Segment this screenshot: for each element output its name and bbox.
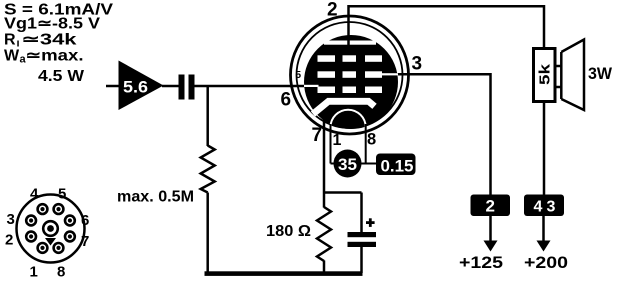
svg-text:3W: 3W: [588, 64, 613, 83]
svg-text:3: 3: [547, 199, 556, 216]
wire cathode pin 7 lead: [323, 118, 326, 193]
socket pin 6: [65, 216, 75, 226]
svg-text:max. 0.5M: max. 0.5M: [117, 189, 194, 206]
wire cathode junction horizontal: [324, 191, 362, 194]
svg-text:6: 6: [281, 90, 292, 111]
resistor max. 0.5M zigzag: [201, 146, 215, 193]
tube socket outer circle: [17, 195, 85, 263]
svg-text:+125: +125: [459, 253, 503, 272]
output transformer box 5k: [534, 49, 556, 102]
wire pin 3 screen lead to box 2: [397, 74, 491, 194]
anode top bar (white): [324, 41, 376, 45]
heater current box 0.15: [376, 154, 416, 176]
svg-text:R: R: [4, 32, 16, 49]
bottom electrode band (white): [313, 101, 375, 114]
electrolytic capacitor plates: [348, 232, 377, 237]
svg-text:3: 3: [7, 211, 15, 228]
svg-text:35: 35: [338, 156, 357, 174]
arrow to +125: [489, 216, 492, 242]
svg-text:7: 7: [312, 125, 323, 146]
wire 0.5M to bottom rail: [206, 193, 209, 274]
white grid entry line (pin 6): [304, 85, 319, 87]
svg-text:8: 8: [367, 131, 376, 149]
svg-text:1: 1: [30, 264, 38, 281]
wire 180 ohm leads: [323, 193, 326, 208]
wire input left stub: [106, 85, 120, 88]
socket key triangle: [45, 238, 56, 246]
socket pin 1: [38, 243, 48, 253]
loudspeaker symbol: [561, 40, 584, 111]
svg-text:8: 8: [57, 264, 65, 281]
bottom rail: [205, 271, 363, 276]
svg-text:3: 3: [412, 54, 423, 75]
wire grid-leak branch vertical: [206, 86, 209, 146]
svg-text:7: 7: [81, 233, 89, 250]
grid dashes row 3: [318, 87, 336, 94]
arrow to +200: [542, 216, 545, 242]
white screen exit line (pin 3): [382, 73, 398, 75]
socket pin 2: [26, 232, 36, 242]
svg-text:5: 5: [58, 186, 66, 203]
voltage box 43: [524, 195, 564, 217]
pin 2 lead over anode bar: [347, 40, 350, 46]
wire triangle to capacitor: [162, 85, 179, 88]
wire 5k to 43 box: [543, 102, 546, 195]
wire capacitor to tube grid: [195, 85, 306, 88]
svg-text:4: 4: [30, 186, 39, 203]
svg-text:1: 1: [333, 132, 342, 149]
socket pin 8: [54, 243, 64, 253]
svg-text:2: 2: [486, 197, 495, 216]
speaker connection stubs: [555, 65, 561, 68]
svg-text:≃34k: ≃34k: [22, 32, 77, 49]
plus sign of electrolytic: [366, 221, 375, 224]
heater leg pin 1: [330, 124, 332, 164]
svg-text:4: 4: [534, 199, 543, 216]
socket pin 4: [38, 204, 48, 214]
tube outer envelope circle: [291, 16, 409, 134]
capacitor C1 plate 2: [189, 75, 195, 100]
svg-text:2: 2: [5, 232, 13, 249]
grid dashes row 1: [318, 55, 336, 62]
svg-text:≃max.: ≃max.: [26, 48, 84, 65]
svg-text:2: 2: [327, 0, 338, 21]
wire 35 circle to 0.15 box: [360, 163, 377, 165]
grid dashes row 2: [318, 71, 336, 78]
svg-text:0.15: 0.15: [381, 158, 414, 176]
svg-text:6: 6: [81, 212, 89, 229]
tube electrode blob: [304, 35, 398, 129]
socket pin 7: [65, 232, 75, 242]
svg-text:5: 5: [296, 70, 302, 81]
wire pin1 stub to 35 circle: [331, 163, 337, 165]
cathode arch (white): [331, 110, 366, 128]
wire anode lead pin 2: [349, 6, 545, 48]
svg-text:4.5 W: 4.5 W: [38, 68, 85, 85]
resistor 180 ohm zigzag: [317, 207, 331, 261]
tube inner circle: [297, 22, 403, 128]
socket center pin: [43, 221, 58, 236]
svg-text:5.6: 5.6: [123, 79, 148, 97]
svg-text:+200: +200: [524, 253, 568, 272]
input attenuator triangle 5.6: [119, 61, 164, 111]
heater current circle 35: [334, 150, 362, 178]
voltage box 2: [471, 195, 511, 217]
svg-text:5k: 5k: [537, 63, 554, 85]
socket pin 5: [54, 204, 64, 214]
socket pin 3: [26, 216, 36, 226]
capacitor C1 plate 1: [179, 75, 185, 100]
svg-text:180 Ω: 180 Ω: [266, 223, 311, 240]
svg-text:W: W: [4, 48, 20, 65]
svg-text:Vg1≃-8.5 V: Vg1≃-8.5 V: [4, 16, 100, 33]
wire electrolytic cap branch: [360, 193, 363, 234]
heater leg pin 8: [365, 124, 367, 164]
